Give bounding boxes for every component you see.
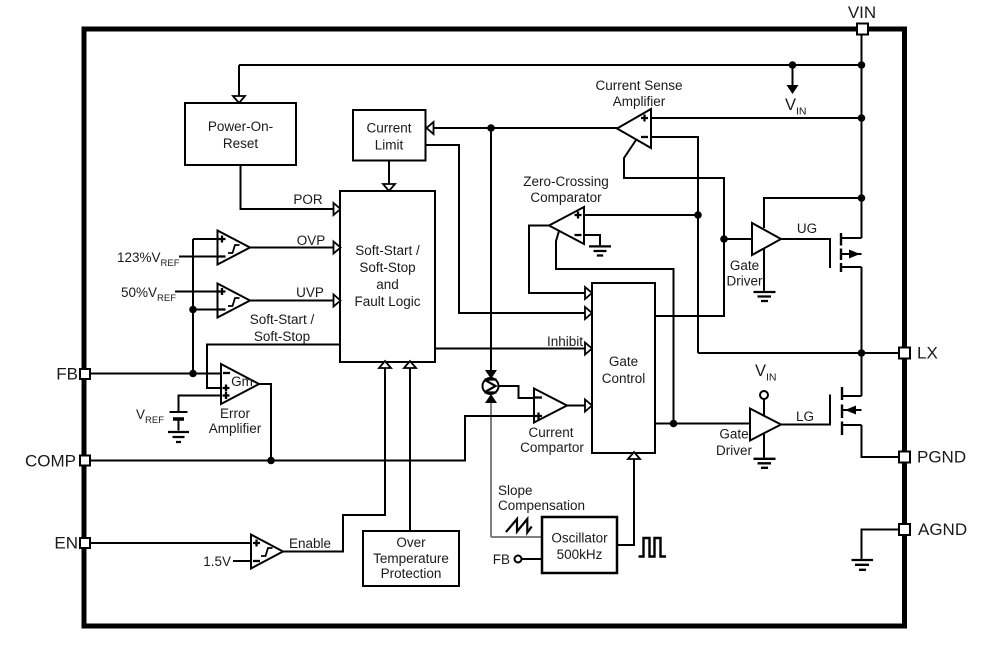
solid arrow Q1 body: [849, 250, 860, 259]
svg-text:Power-On-: Power-On-: [208, 119, 273, 134]
wire UG driver supply from VIN: [764, 198, 862, 228]
wire Gate Control to CS enable: [624, 140, 724, 316]
svg-text:UVP: UVP: [296, 285, 324, 300]
gate driver LG: [750, 409, 781, 441]
minus error amp: [223, 372, 230, 374]
terminal circle VIN LG: [760, 391, 768, 399]
wire UVP output: [250, 300, 334, 302]
box Current Limit: [353, 110, 426, 161]
wire sum drop from CS output: [490, 128, 492, 371]
wire current sense output to current limit: [434, 127, 618, 129]
node dot FB: [189, 370, 197, 378]
pin PGND: [899, 452, 910, 463]
wire VIN vertical rail: [861, 34, 863, 238]
node dot ZC plus LX: [694, 211, 702, 219]
IC boundary frame: [84, 29, 905, 626]
node dot UVP minus: [189, 306, 197, 314]
svg-text:Reset: Reset: [223, 136, 259, 151]
wire ZC enable from LG node: [556, 231, 674, 424]
wire Current Limit down to Soft-Start: [388, 161, 390, 184]
wire FB to oscillator: [522, 558, 543, 560]
wire LX node: [698, 352, 900, 354]
wire Gate Control to LG driver: [655, 423, 750, 425]
svg-text:Gate: Gate: [730, 258, 759, 273]
pin EN: [80, 538, 90, 548]
svg-text:POR: POR: [293, 192, 323, 207]
svg-text:Oscillator: Oscillator: [551, 531, 608, 546]
wire EN line: [90, 542, 251, 544]
ground ZC: [589, 246, 611, 255]
open arrow OTP into Soft-Start bottom: [404, 361, 416, 368]
battery VREF: [170, 411, 188, 413]
svg-text:Compensation: Compensation: [498, 498, 585, 513]
wire UG driver input: [724, 238, 752, 240]
minus UVP: [219, 308, 226, 310]
wire VIN circle to LG driver: [763, 399, 765, 415]
node dot CS output summer: [487, 124, 495, 132]
svg-text:Current: Current: [366, 121, 411, 136]
sawtooth icon: [506, 519, 532, 533]
wire 50%VREF input: [175, 291, 218, 293]
wire POR feed drop: [238, 65, 240, 96]
node dot COMP: [267, 457, 275, 465]
comparator zero-crossing: [549, 207, 584, 244]
wire Soft-Start to error amp plus: [207, 345, 340, 389]
svg-text:FB: FB: [493, 552, 510, 567]
svg-text:500kHz: 500kHz: [557, 547, 603, 562]
node dot UG supply: [858, 194, 866, 202]
solid arrowhead VIN tap: [787, 85, 799, 94]
open arrow oscillator into Gate Control bottom: [628, 452, 640, 459]
svg-text:Slope: Slope: [498, 483, 533, 498]
pin LX: [899, 348, 910, 359]
wire Inhibit: [435, 348, 585, 350]
wire COMP line: [90, 416, 534, 461]
wire AGND: [862, 530, 900, 559]
plus OVP: [219, 236, 226, 243]
transistor Q2 channel segments: [841, 387, 843, 435]
wire summer output to current comparator: [499, 386, 535, 398]
wire ZC plus input to LX line: [584, 214, 698, 216]
svg-text:Zero-Crossing: Zero-Crossing: [523, 174, 609, 189]
transistor Q1 drain stub: [841, 237, 862, 239]
op-amp current sense amplifier: [617, 109, 651, 148]
plus current sense: [641, 115, 648, 122]
wire OVP output: [250, 247, 334, 249]
box Over Temperature Protection: [363, 531, 459, 586]
transistor Q1 source stub: [841, 266, 862, 268]
svg-text:EN: EN: [54, 534, 78, 553]
label sigma: [485, 380, 497, 393]
comparator OVP: [218, 231, 251, 265]
svg-text:Gm: Gm: [231, 374, 253, 389]
ground LG driver: [754, 459, 776, 468]
svg-text:Error: Error: [220, 406, 251, 421]
transistor Q1 body stub: [841, 253, 862, 255]
svg-text:VIN: VIN: [848, 3, 876, 22]
node dot VIN tap: [789, 61, 797, 69]
wire POR output: [241, 165, 334, 209]
node dot VIN rail top: [858, 61, 866, 69]
svg-text:Amplifier: Amplifier: [209, 421, 262, 436]
summer circle: [483, 378, 499, 394]
wire ZC output to Gate Control: [529, 226, 585, 294]
wire 123%VREF input: [179, 256, 218, 258]
open arrow enable into Soft-Start bottom: [379, 361, 391, 368]
open arrow into Gate Control: [585, 400, 592, 412]
transistor Q1 channel segments: [840, 233, 842, 272]
plus error amp upper: [223, 385, 230, 392]
svg-text:Gate: Gate: [609, 354, 638, 369]
plus enable: [253, 540, 260, 547]
clock waveform icon: [639, 538, 667, 557]
svg-text:Soft-Stop: Soft-Stop: [254, 329, 310, 344]
node dot LX: [858, 349, 866, 357]
open arrow UVP into Soft-Start: [334, 295, 341, 307]
wire CS amp plus input from VIN: [651, 117, 862, 119]
open arrow ZC into Gate Control: [585, 287, 592, 299]
transistor Q2 body stub: [842, 409, 862, 411]
open arrow POR into Soft-Start: [334, 203, 341, 215]
wire CS amp minus input to LX: [651, 137, 698, 353]
node dot LG: [670, 420, 678, 428]
pin COMP: [80, 456, 90, 466]
svg-text:LX: LX: [917, 344, 938, 363]
wire VREF to error amp: [179, 396, 222, 412]
svg-text:PGND: PGND: [917, 448, 966, 467]
transistor Q2 drain stub: [842, 395, 862, 397]
minus OVP: [219, 255, 226, 257]
svg-text:FB: FB: [56, 365, 78, 384]
svg-text:COMP: COMP: [25, 452, 76, 471]
svg-text:Comparator: Comparator: [530, 190, 602, 205]
svg-text:Enable: Enable: [289, 536, 331, 551]
svg-text:Over: Over: [396, 535, 426, 550]
plus error amp lower: [223, 392, 230, 399]
box Soft-Start Fault Logic: [340, 191, 435, 362]
solid arrowhead into summer top: [485, 370, 497, 379]
svg-text:Control: Control: [602, 371, 646, 386]
wire OTP to Soft-Start: [409, 368, 411, 531]
wire ZC minus to ground: [584, 235, 600, 245]
wire FB line: [90, 373, 221, 375]
svg-text:Soft-Start /: Soft-Start /: [250, 312, 315, 327]
schmitt icon OVP: [228, 245, 240, 253]
wire LG driver ground stem: [763, 434, 765, 458]
wire oscillator output to Gate Control: [617, 459, 634, 545]
open arrow into POR top: [233, 96, 245, 103]
schmitt icon enable: [261, 548, 273, 556]
transistor Q2 source stub: [842, 424, 862, 426]
svg-text:Current: Current: [528, 425, 573, 440]
wire current comparator output: [567, 405, 585, 407]
wire LG to MOSFET gate: [781, 395, 830, 425]
svg-text:OVP: OVP: [297, 233, 326, 248]
minus zero-crossing: [575, 234, 582, 236]
open arrow into Soft-Start top: [383, 184, 395, 191]
box Power-On-Reset: [185, 103, 296, 165]
wire slope compensation gray horizontal: [491, 536, 542, 538]
minus current comparator: [535, 396, 542, 398]
schmitt icon UVP: [228, 298, 240, 306]
svg-text:Current Sense: Current Sense: [595, 78, 682, 93]
ground UG driver: [754, 292, 776, 301]
box Oscillator: [542, 517, 617, 573]
VIN tap arrow: [792, 65, 794, 85]
minus enable: [253, 560, 260, 562]
plus zero-crossing: [575, 212, 582, 219]
svg-text:Amplifier: Amplifier: [613, 94, 666, 109]
op-amp error amplifier: [221, 364, 259, 404]
wire slope compensation gray riser: [490, 402, 492, 537]
wire error amp output to COMP: [259, 384, 271, 461]
wire OVP plus from FB rail: [193, 238, 218, 240]
svg-text:Fault Logic: Fault Logic: [354, 294, 420, 309]
terminal circle FB: [515, 556, 522, 563]
svg-text:AGND: AGND: [918, 520, 967, 539]
wire FB rail vertical: [192, 239, 194, 374]
box Gate Control: [592, 283, 655, 453]
wire Q2 drain from LX: [861, 353, 863, 396]
gate driver UG: [752, 223, 781, 255]
wire UG to MOSFET gate: [781, 239, 830, 268]
node dot UG input: [720, 235, 728, 243]
ground VREF: [168, 432, 189, 442]
comparator current comparator: [534, 389, 567, 423]
svg-text:Driver: Driver: [716, 443, 753, 458]
open arrow Current Limit into Gate Control: [585, 307, 592, 319]
solid arrow Q2 body: [845, 406, 856, 415]
wire Q1 source to LX: [861, 267, 863, 353]
open arrow Inhibit into Gate Control: [585, 343, 592, 355]
comparator enable: [251, 535, 283, 569]
svg-text:Temperature: Temperature: [373, 551, 449, 566]
pin AGND: [899, 524, 910, 535]
svg-text:UG: UG: [797, 221, 817, 236]
svg-text:and: and: [376, 277, 399, 292]
plus UVP: [219, 288, 226, 295]
pin VIN: [857, 24, 868, 35]
svg-text:Soft-Stop: Soft-Stop: [359, 260, 415, 275]
svg-text:Protection: Protection: [381, 566, 442, 581]
wire 1.5V input: [233, 560, 251, 562]
plus current comparator: [535, 413, 542, 420]
wire enable output to Soft-Start: [283, 368, 385, 552]
svg-text:Driver: Driver: [727, 274, 764, 289]
wire VIN top rail: [239, 64, 862, 66]
wire UVP minus from FB rail: [193, 309, 218, 311]
svg-text:Inhibit: Inhibit: [547, 334, 583, 349]
ground AGND: [852, 560, 874, 570]
wire Current Limit output to Gate Control: [426, 145, 586, 313]
open arrow OVP into Soft-Start: [334, 242, 341, 254]
svg-text:LG: LG: [796, 409, 814, 424]
svg-text:Soft-Start /: Soft-Start /: [355, 243, 420, 258]
wire UG driver ground stem: [763, 249, 765, 291]
svg-text:1.5V: 1.5V: [203, 554, 231, 569]
node dot CS plus: [858, 114, 866, 122]
minus current sense: [641, 136, 648, 138]
open arrow into Current Limit: [427, 122, 434, 134]
solid arrowhead into summer bottom: [485, 394, 497, 403]
comparator UVP: [218, 284, 251, 318]
wire Q2 source to PGND: [862, 425, 900, 457]
pin FB: [80, 369, 90, 379]
svg-text:Gate: Gate: [719, 427, 748, 442]
svg-text:Limit: Limit: [375, 138, 404, 153]
svg-text:Compartor: Compartor: [520, 440, 584, 455]
